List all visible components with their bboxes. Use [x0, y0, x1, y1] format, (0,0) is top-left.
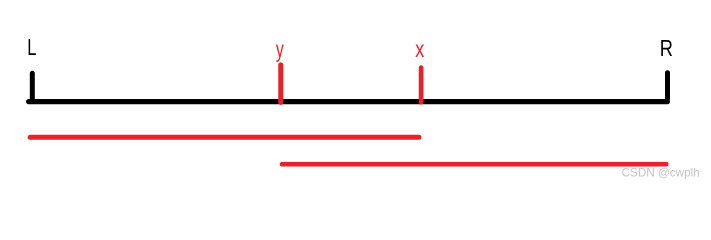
- interval segment [y,R]: red line: [282, 162, 666, 167]
- svg-text:y: y: [276, 36, 284, 62]
- svg-text:CSDN @cwplh: CSDN @cwplh: [622, 167, 700, 180]
- node x: red tick mark: [419, 68, 424, 103]
- node y: red tick mark: [278, 65, 283, 103]
- svg-text:x: x: [415, 36, 424, 62]
- node L: left end tick: [30, 73, 35, 99]
- wire: main horizontal segment line L-R: [29, 99, 668, 104]
- svg-text:L: L: [27, 34, 36, 60]
- svg-text:R: R: [660, 35, 673, 61]
- node R: right end tick: [665, 73, 670, 99]
- interval segment [L,x]: red line: [30, 135, 419, 140]
